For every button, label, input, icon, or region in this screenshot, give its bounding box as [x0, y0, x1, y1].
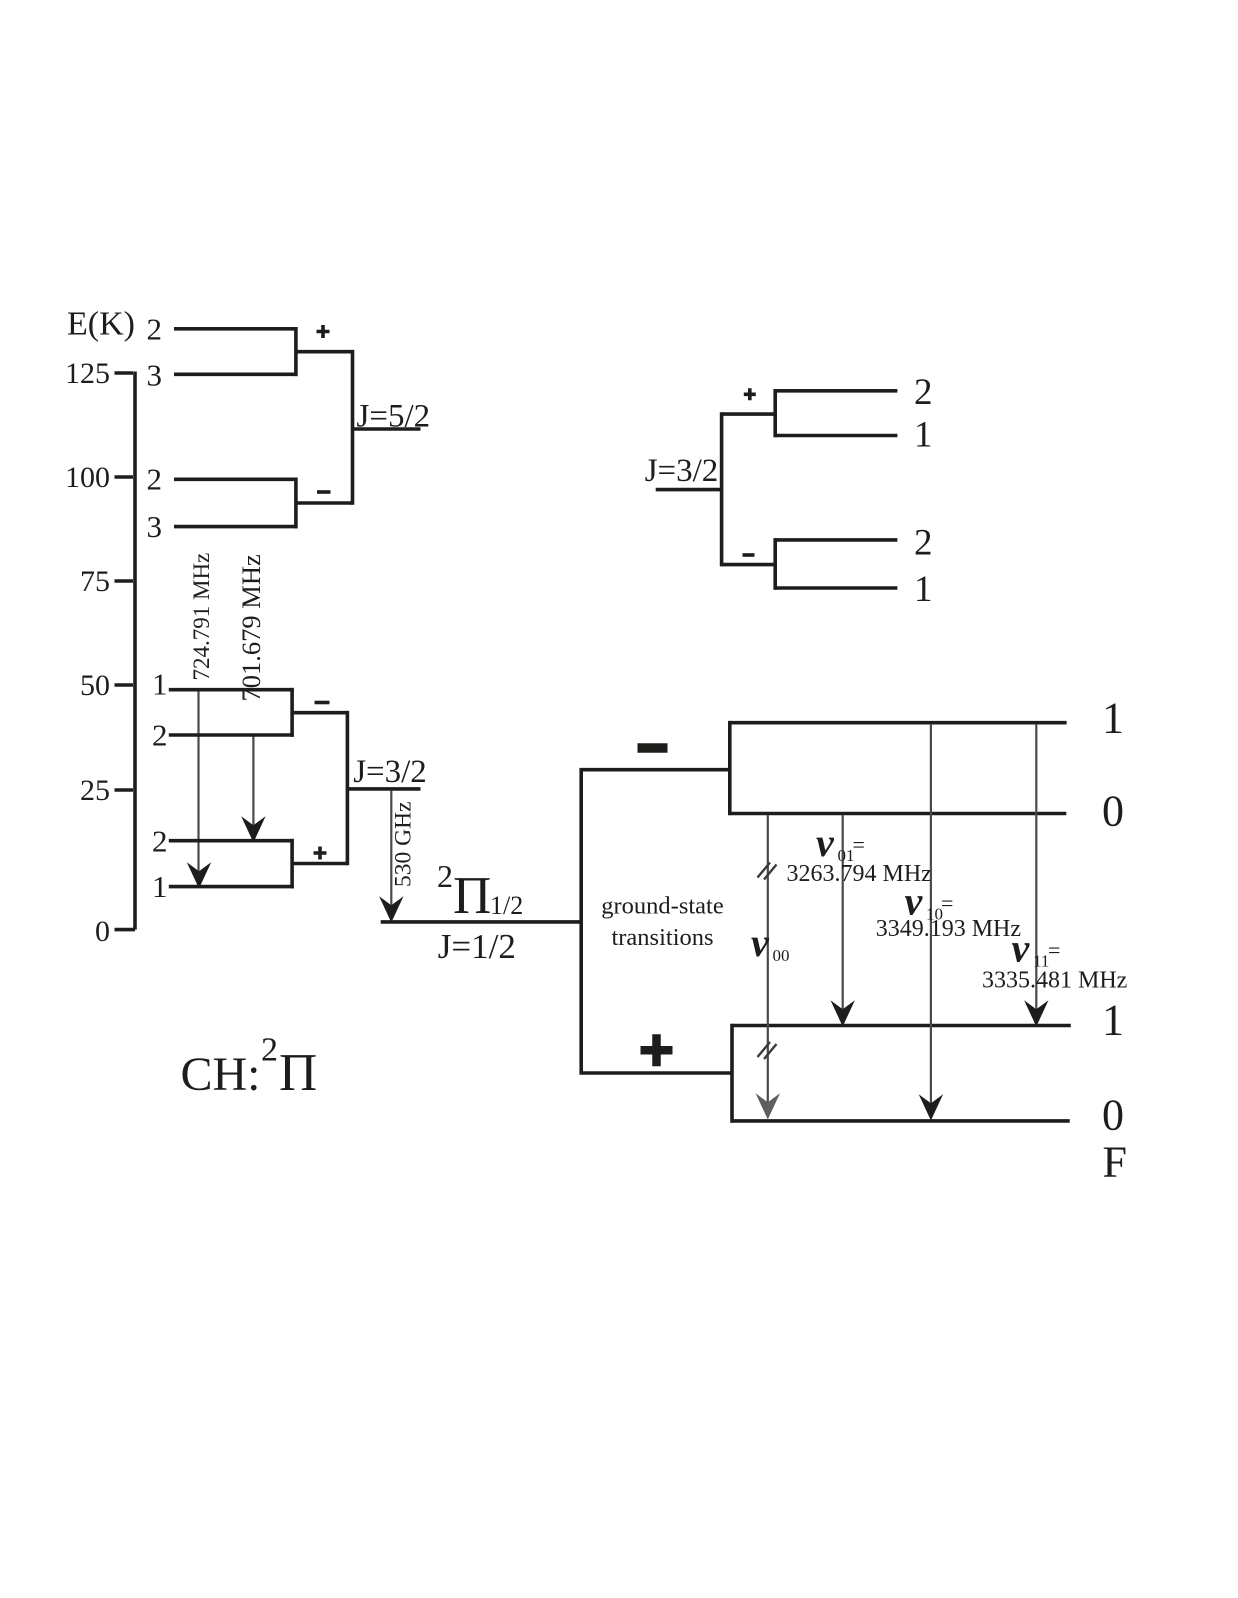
parity - label (J=3/2 upper) — [315, 701, 330, 705]
arrowhead 724.791 — [187, 862, 211, 888]
svg-text:530 GHz: 530 GHz — [391, 802, 417, 888]
J=3/2 lower level F=2 — [169, 839, 294, 843]
lower level F=1 (plus) — [732, 1024, 1071, 1028]
svg-text:J=3/2: J=3/2 — [645, 453, 719, 489]
axis tick 75 — [115, 579, 134, 583]
svg-text:1: 1 — [1102, 996, 1124, 1045]
right tree - branch stem — [722, 563, 776, 567]
svg-text:724.791 MHz: 724.791 MHz — [189, 553, 214, 681]
J=3/2 upper level F=2 — [169, 733, 294, 737]
svg-text:125: 125 — [65, 357, 110, 390]
lower pair bracket stem — [296, 501, 353, 505]
svg-text:Π: Π — [453, 867, 491, 925]
upper pair bracket vertical (J=3/2) — [290, 688, 294, 737]
530 GHz arrowhead — [379, 896, 403, 922]
J=5/2 lower level F=3 — [174, 525, 298, 529]
svg-text:00: 00 — [773, 946, 790, 965]
J=5/2 upper level F=2 — [174, 327, 298, 331]
svg-text:=: = — [941, 891, 953, 916]
upper level F=1 (minus) — [730, 721, 1067, 725]
J=3/2 stub level — [347, 787, 420, 791]
transition arrow v11 shaft — [1035, 724, 1037, 1011]
right tree + pair vertical — [773, 389, 777, 437]
right tree main vertical — [720, 412, 724, 566]
svg-text:Π: Π — [279, 1044, 317, 1102]
axis tick 50 — [115, 683, 134, 687]
svg-text:2: 2 — [261, 1031, 278, 1068]
svg-text:3: 3 — [147, 358, 163, 393]
svg-text:0: 0 — [1102, 786, 1124, 835]
svg-text:J=1/2: J=1/2 — [438, 927, 516, 966]
svg-text:1: 1 — [914, 569, 933, 610]
svg-text:3: 3 — [147, 509, 163, 544]
svg-text:2: 2 — [147, 312, 163, 347]
lower pair bracket vertical — [294, 478, 298, 529]
transition arrow v10 shaft — [930, 724, 932, 1105]
svg-text:1: 1 — [152, 667, 168, 702]
arrowhead 701.679 — [241, 816, 265, 842]
svg-text:75: 75 — [80, 565, 110, 598]
svg-text:25: 25 — [80, 774, 110, 807]
right tree base level — [656, 488, 722, 492]
upper pair bracket vertical — [294, 327, 298, 376]
J=3/2 upper level F=1 — [169, 688, 294, 692]
lower level F=0 (plus) — [732, 1119, 1070, 1123]
svg-text:J=5/2: J=5/2 — [357, 399, 431, 435]
parity - label (right tree) — [743, 553, 755, 557]
svg-text:F: F — [1103, 1138, 1127, 1187]
530 GHz arrow shaft — [390, 791, 392, 908]
svg-text:100: 100 — [65, 461, 110, 494]
right tree level F=2 (-) — [775, 538, 897, 542]
v10 arrowhead — [919, 1094, 943, 1120]
svg-text:2: 2 — [437, 858, 453, 894]
svg-text:2: 2 — [914, 523, 933, 564]
transition arrow v01 shaft — [842, 815, 844, 1011]
ground-state bracket — [581, 770, 732, 1073]
svg-text:3349.193 MHz: 3349.193 MHz — [876, 916, 1021, 942]
transition arrow v00 shaft — [767, 815, 769, 1104]
big plus parity label — [641, 1034, 673, 1066]
right tree level F=1 (-) — [775, 586, 897, 590]
v01 arrowhead — [831, 1000, 855, 1026]
J=3/2 lower level F=1 — [169, 885, 294, 889]
lower hyperfine box (plus) vertical — [730, 1024, 734, 1123]
svg-text:701.679 MHz: 701.679 MHz — [236, 554, 266, 701]
svg-text:1: 1 — [914, 415, 933, 456]
svg-text:=: = — [853, 832, 865, 857]
svg-text:J=3/2: J=3/2 — [353, 754, 427, 790]
svg-text:2: 2 — [152, 824, 168, 859]
big minus parity label — [638, 743, 668, 753]
upper pair bracket stem — [296, 350, 353, 354]
parity + label (J=3/2 lower) — [314, 847, 327, 860]
axis tick 25 — [115, 788, 134, 792]
svg-text:ν: ν — [816, 820, 835, 865]
svg-text:3335.481 MHz: 3335.481 MHz — [982, 968, 1127, 994]
svg-text:1/2: 1/2 — [490, 891, 523, 920]
svg-text:50: 50 — [80, 669, 110, 702]
energy axis vertical line — [133, 372, 137, 930]
svg-text:ground-state: ground-state — [601, 893, 724, 920]
J=3/2 main vertical — [346, 711, 350, 865]
J=5/2 main vertical — [351, 350, 355, 505]
upper hyperfine box (minus) vertical — [728, 721, 732, 815]
ground level 2-Pi-1/2 line — [381, 920, 583, 924]
axis tick 0 (foot) — [115, 928, 136, 932]
right tree level F=1 (+) — [775, 434, 897, 438]
hyperfine arrow 701.679 MHz — [252, 737, 254, 828]
svg-text:1: 1 — [1102, 694, 1124, 743]
right tree - pair vertical — [773, 538, 777, 590]
svg-text:CH:: CH: — [181, 1048, 261, 1101]
parity + label (J=5/2 upper) — [317, 325, 330, 338]
lower pair bracket stem (J=3/2) — [292, 862, 347, 866]
J=5/2 lower level F=2 — [174, 477, 298, 481]
svg-text:ν: ν — [751, 920, 770, 965]
upper pair bracket stem (J=3/2) — [292, 711, 347, 715]
v00 break mark lower — [758, 1042, 777, 1059]
svg-text:=: = — [1048, 938, 1060, 963]
v11 arrowhead — [1024, 1000, 1048, 1026]
right tree + branch stem — [722, 412, 776, 416]
svg-text:0: 0 — [1102, 1091, 1124, 1140]
axis tick 125 — [115, 371, 134, 375]
svg-text:0: 0 — [95, 915, 110, 948]
svg-text:1: 1 — [152, 869, 168, 904]
upper level F=0 (minus) — [730, 812, 1067, 816]
v00 break mark upper — [758, 863, 777, 880]
svg-text:transitions: transitions — [611, 924, 713, 951]
J=5/2 stub level — [353, 427, 421, 431]
hyperfine arrow 724.791 MHz — [197, 691, 199, 873]
parity - label (J=5/2 lower) — [317, 490, 331, 494]
svg-text:2: 2 — [147, 462, 163, 497]
lower pair bracket vertical (J=3/2) — [290, 839, 294, 889]
svg-text:2: 2 — [914, 372, 933, 413]
svg-text:E(K): E(K) — [67, 306, 135, 343]
v00 arrowhead (gray) — [756, 1093, 780, 1119]
right tree level F=2 (+) — [775, 389, 897, 393]
J=5/2 upper level F=3 — [174, 372, 298, 376]
svg-text:2: 2 — [152, 718, 168, 753]
parity + label (right tree) — [744, 388, 756, 400]
axis tick 100 — [115, 475, 134, 479]
svg-text:ν: ν — [1012, 926, 1031, 971]
